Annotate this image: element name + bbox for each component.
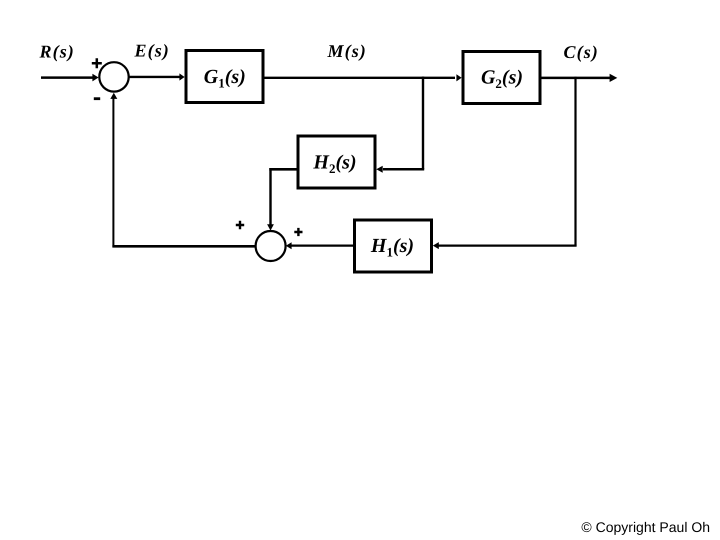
svg-text:G2(s): G2(s)	[481, 67, 523, 92]
svg-text:M(s): M(s)	[327, 41, 367, 61]
svg-text:H2(s): H2(s)	[312, 152, 356, 177]
svg-text:C(s): C(s)	[564, 42, 599, 62]
svg-text:© Copyright Paul Oh: © Copyright Paul Oh	[581, 519, 710, 535]
svg-text:G1(s): G1(s)	[204, 66, 246, 91]
svg-text:E(s): E(s)	[134, 41, 170, 61]
svg-text:R(s): R(s)	[39, 42, 75, 62]
svg-text:H1(s): H1(s)	[370, 235, 414, 260]
